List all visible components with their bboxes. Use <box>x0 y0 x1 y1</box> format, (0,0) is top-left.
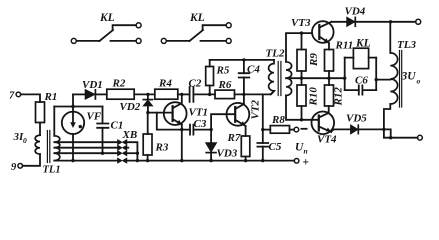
node KL coil left <box>343 77 346 80</box>
relay contact KL (second, top left) <box>161 23 231 44</box>
node emitter/C3 line cross <box>180 128 183 131</box>
svg-text:R6: R6 <box>218 79 232 91</box>
svg-text:VT2: VT2 <box>250 99 262 119</box>
wire VF bottom lead <box>72 134 74 161</box>
node VT2 base / VD3 <box>209 128 212 131</box>
wire bracket (secondary top / VF / C1) <box>54 106 102 108</box>
relay coil KL <box>345 48 377 68</box>
resistor R4 <box>155 89 178 99</box>
svg-text:C5: C5 <box>269 141 282 153</box>
svg-text:R2: R2 <box>112 78 126 90</box>
resistor R8 <box>263 126 294 134</box>
node VT1 collector on rail <box>180 93 183 96</box>
svg-text:TL1: TL1 <box>43 165 61 176</box>
wire secondary row 3 <box>54 152 117 154</box>
resistor R6 <box>215 90 235 99</box>
node R10 bottom <box>300 118 303 121</box>
wire TL2 secondary top to VT3 base <box>286 33 312 62</box>
node VD3 on rail <box>209 159 212 162</box>
svg-text:C3: C3 <box>194 118 207 130</box>
wire KL coil left rail <box>344 58 346 91</box>
svg-text:C6: C6 <box>355 75 368 87</box>
svg-text:R3: R3 <box>155 142 169 154</box>
svg-text:VT3: VT3 <box>291 17 311 29</box>
svg-text:VT1: VT1 <box>189 107 209 119</box>
wire VT4 emitter to VD5 <box>331 129 350 131</box>
terminal 9 <box>18 164 23 169</box>
node on bottom output wire <box>389 136 392 139</box>
node C1 bottom on row3 <box>101 152 104 155</box>
wire VT2 emitter to R7 <box>245 126 247 136</box>
svg-text:TL2: TL2 <box>266 48 285 60</box>
diode VD1 <box>85 90 95 100</box>
node R9/R10 <box>300 77 303 80</box>
node VT1 emitter on rail <box>180 159 183 162</box>
wire TL2 tap to KL coil <box>286 77 345 79</box>
svg-text:TL3: TL3 <box>397 39 416 51</box>
transistor VT2 <box>227 103 250 126</box>
resistor R7 <box>241 136 250 157</box>
wire up to VT2 base <box>211 114 235 129</box>
node C4 top <box>242 58 245 61</box>
node VF top on bracket <box>71 105 74 108</box>
wire secondary row 1 <box>54 141 117 143</box>
svg-text:R5: R5 <box>216 65 230 77</box>
svg-text:0: 0 <box>23 136 27 145</box>
terminal bottom right <box>418 135 423 140</box>
connector XB row1 <box>118 140 127 145</box>
wire VF top lead <box>72 94 74 111</box>
node R3 on rail <box>146 159 149 162</box>
wire collector column / C5 column <box>262 94 264 143</box>
svg-text:R1: R1 <box>44 91 58 103</box>
wire bottom rail <box>127 160 295 162</box>
resistor R1 <box>36 102 45 123</box>
resistor R12 <box>325 85 334 113</box>
svg-text:R11: R11 <box>335 40 354 52</box>
transformer TL2 primary winding <box>269 60 274 95</box>
wire KL rail tap to TL3 <box>376 79 390 81</box>
node TL3 tap <box>375 78 378 81</box>
wire VD5 to TL3 bottom <box>358 129 390 137</box>
wire secondary row 2 <box>54 147 117 149</box>
svg-text:VT4: VT4 <box>317 134 337 146</box>
svg-text:+: + <box>303 157 310 169</box>
wire TL1 secondary top up to bracket <box>53 107 55 136</box>
terminal - output <box>294 127 299 132</box>
diode VD5 <box>351 125 359 134</box>
wire TL1 primary to terminal 9 <box>23 154 41 166</box>
resistor R9 <box>297 33 306 85</box>
wire row1 to down link <box>127 142 138 160</box>
svg-text:R10: R10 <box>308 87 320 107</box>
svg-text:R8: R8 <box>271 114 285 126</box>
svg-text:R9: R9 <box>308 53 320 67</box>
svg-text:7: 7 <box>9 91 15 102</box>
svg-text:o: o <box>417 77 421 86</box>
TL2 core <box>278 62 281 96</box>
wire VT1 base <box>148 112 173 114</box>
wire base branch down to C3 <box>157 113 190 130</box>
capacitor C2 <box>190 87 194 102</box>
TL3 core <box>400 51 402 108</box>
transformer TL1 secondary winding (tapped) <box>54 136 60 161</box>
capacitor C5 <box>257 143 268 161</box>
wire KL coil right rail <box>375 58 377 91</box>
terminal 7 <box>16 92 21 97</box>
wire VT3 collector line to terminal <box>332 21 416 23</box>
diode VD2 <box>143 94 152 112</box>
resistor R11 <box>325 44 334 86</box>
svg-text:C2: C2 <box>189 78 202 90</box>
node VD5 line x TL3 lead <box>382 128 385 131</box>
TL1 core <box>47 131 49 163</box>
wire VD1 to R2 <box>95 93 106 95</box>
wire TL3 top lead <box>389 22 391 53</box>
wire R6 to TL2 primary bottom <box>235 91 275 94</box>
svg-text:3U: 3U <box>401 71 417 83</box>
relay contact KL (first, top left) <box>71 23 141 44</box>
svg-text:KL: KL <box>99 12 115 24</box>
svg-text:VD4: VD4 <box>345 6 366 18</box>
resistor R3 <box>143 113 152 161</box>
resistor R10 <box>297 85 306 120</box>
connector XB row2 <box>118 145 127 150</box>
transistor VT4 <box>312 112 335 135</box>
svg-text:R12: R12 <box>333 87 345 107</box>
wire R7 to rail <box>245 157 247 161</box>
connector XB row4 (rail) <box>118 158 127 163</box>
transformer TL1 primary winding <box>35 135 40 154</box>
svg-text:VD1: VD1 <box>82 79 103 91</box>
svg-text:n: n <box>304 147 308 156</box>
transformer TL2 secondary winding (tapped) <box>286 62 292 96</box>
svg-text:R4: R4 <box>158 78 172 90</box>
node row1 link on rail <box>136 159 139 162</box>
wire C3 to VT2 base node <box>193 129 211 131</box>
capacitor C6 <box>345 85 377 94</box>
node VT1 base / R3 <box>146 111 149 114</box>
svg-text:R7: R7 <box>227 132 241 144</box>
capacitor C4 <box>239 60 250 104</box>
wire C2 to R6 <box>193 93 215 95</box>
svg-text:C4: C4 <box>247 64 260 76</box>
svg-text:XB: XB <box>122 129 138 141</box>
node R5 bottom <box>208 93 211 96</box>
gas tube VF <box>62 112 84 134</box>
node TL3 top <box>389 20 392 23</box>
capacitor C3 <box>190 125 193 135</box>
svg-text:9: 9 <box>11 162 17 173</box>
node R9 top <box>300 31 303 34</box>
wire VD1 anode from VF-top node <box>73 93 85 95</box>
transistor VT1 <box>164 94 187 125</box>
wire terminal7 to R1 <box>21 94 40 102</box>
terminal top right <box>416 19 421 24</box>
wire TL2 secondary bottom to VT4 base <box>286 95 318 119</box>
node VD2 top <box>146 93 149 96</box>
wire bottom rail (left of connector) <box>54 160 117 162</box>
wire TL3 bottom to output terminal <box>384 104 418 138</box>
transistor VT3 <box>312 21 334 43</box>
svg-text:VD2: VD2 <box>120 101 141 113</box>
capacitor C1 <box>97 107 108 154</box>
wire R4 to C2 <box>178 93 190 95</box>
node C4 bottom / VT2 collector <box>242 93 245 96</box>
wire VT1 emitter down to rail <box>181 125 183 161</box>
node R7 on rail <box>244 159 247 162</box>
svg-text:KL: KL <box>355 38 371 50</box>
diode VD3 <box>206 130 217 161</box>
svg-text:VF: VF <box>87 111 102 123</box>
node C5 on rail <box>261 159 264 162</box>
node R11/R12 <box>327 77 330 80</box>
svg-text:KL: KL <box>189 12 205 24</box>
wire top supply rail <box>210 59 274 61</box>
resistor R5 <box>206 60 214 95</box>
wire R1 to TL1 primary <box>39 123 41 136</box>
svg-text:VD3: VD3 <box>217 148 238 160</box>
node R8 left <box>261 128 264 131</box>
terminal + output <box>294 159 299 164</box>
svg-text:VD5: VD5 <box>346 113 367 125</box>
resistor R2 <box>107 89 134 99</box>
node row3 x row1 link <box>136 152 139 155</box>
wire R2 to R4 <box>134 93 155 95</box>
connector XB row3 <box>118 151 127 156</box>
svg-text:C1: C1 <box>111 120 124 132</box>
transformer TL3 winding <box>390 53 397 104</box>
node VF bottom on rail <box>71 159 74 162</box>
diode VD4 <box>347 17 356 26</box>
